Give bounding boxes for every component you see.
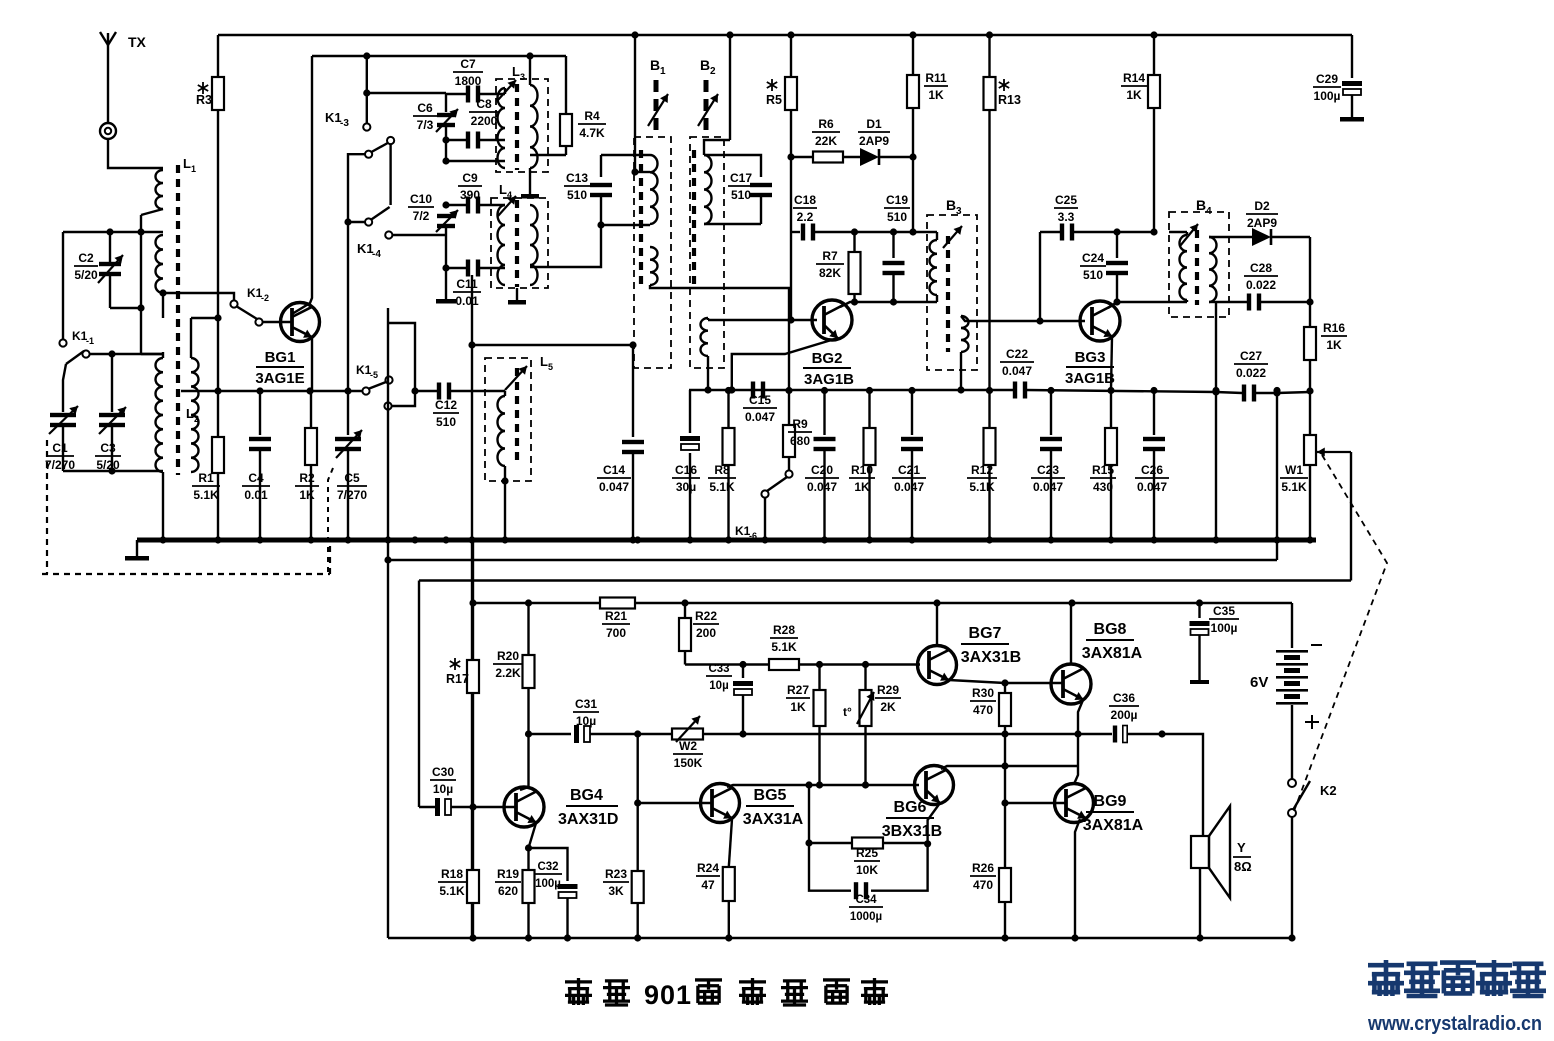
svg-text:R21: R21	[605, 609, 627, 623]
label R30	[970, 686, 996, 717]
svg-text:200µ: 200µ	[1111, 708, 1138, 722]
junction ground bus x=472	[468, 536, 475, 543]
label R21	[602, 609, 630, 640]
junction C36 out	[1158, 730, 1165, 737]
resistor R8	[723, 390, 735, 540]
svg-text:510: 510	[731, 188, 751, 202]
svg-text:5.1K: 5.1K	[439, 884, 465, 898]
label K1-3	[325, 110, 349, 129]
ground symbol main	[125, 540, 149, 561]
BG6 collector	[941, 766, 1078, 769]
svg-text:C19: C19	[886, 193, 908, 207]
svg-text:C15: C15	[749, 393, 771, 407]
switch K1-2	[230, 300, 262, 325]
resistor R14	[1148, 35, 1160, 232]
svg-text:R19: R19	[497, 867, 519, 881]
svg-text:0.047: 0.047	[1033, 480, 1063, 494]
svg-text:C22: C22	[1006, 347, 1028, 361]
BG8 emitter	[1078, 700, 1083, 766]
wire rail to B1 primary tap	[631, 35, 650, 176]
svg-text:0.01: 0.01	[244, 488, 268, 502]
svg-text:470: 470	[973, 878, 993, 892]
junction audio rail x=685	[681, 599, 688, 606]
label BG9	[1083, 793, 1144, 834]
junction R29 bottom	[862, 781, 869, 788]
svg-text:1K: 1K	[928, 88, 944, 102]
svg-text:BG4: BG4	[570, 787, 603, 804]
resistor R19	[523, 870, 535, 938]
label L1	[183, 156, 196, 174]
tuning gang dashed link	[42, 440, 330, 574]
svg-text:C6: C6	[417, 101, 433, 115]
B2 secondary	[701, 318, 709, 356]
junction rail2 K1-3	[363, 52, 370, 59]
BG5 collector	[727, 785, 820, 787]
capacitor C16	[680, 390, 700, 540]
wire to speaker	[1162, 734, 1203, 836]
speaker Y	[1191, 806, 1230, 898]
label R27	[786, 683, 810, 714]
svg-text:C5: C5	[344, 471, 360, 485]
junction on top rail x=791	[787, 31, 794, 38]
coil L3 right	[530, 85, 538, 168]
resistor R28	[769, 659, 799, 670]
wire audio input drop	[418, 581, 420, 808]
svg-text:C31: C31	[575, 697, 597, 711]
wire rail to B2 primary	[704, 35, 730, 155]
capacitor C27	[1212, 385, 1277, 402]
junction ground bus x=311	[307, 536, 314, 543]
svg-text:D2: D2	[1254, 199, 1270, 213]
B4 core	[1195, 230, 1199, 305]
label BG7	[961, 625, 1021, 666]
resistor R27	[814, 665, 826, 786]
junction R27 bottom	[816, 781, 823, 788]
junction D2 col	[1306, 298, 1313, 305]
label R20	[493, 649, 523, 680]
potentiometer W2	[672, 716, 703, 742]
svg-text:0.022: 0.022	[1246, 278, 1276, 292]
svg-text:10µ: 10µ	[709, 680, 728, 692]
svg-text:10µ: 10µ	[576, 714, 596, 728]
junction BG4 emitter	[525, 844, 532, 851]
label C9	[458, 171, 482, 202]
junction W2/C33	[739, 730, 746, 737]
wire L1 tap to K1-2	[163, 293, 234, 300]
svg-text:3AG1B: 3AG1B	[1065, 370, 1115, 387]
svg-text:L: L	[512, 64, 520, 79]
label R12	[967, 463, 997, 494]
label B1	[650, 57, 666, 77]
junction AGC x=989.5	[986, 387, 993, 394]
wire K1-3 top to C6/C7 node	[367, 92, 446, 94]
wire speaker to rail	[1196, 868, 1203, 942]
BG4 emitter	[529, 823, 537, 870]
battery 6V	[1276, 650, 1308, 705]
label C2	[74, 251, 98, 282]
coil L5 box	[485, 358, 531, 481]
BG7 collector	[936, 603, 938, 645]
BG7 emitter	[949, 680, 1005, 683]
svg-text:R1: R1	[198, 471, 214, 485]
wire R14 to C25 node	[1117, 228, 1158, 235]
svg-text:2K: 2K	[880, 700, 896, 714]
svg-text:R10: R10	[851, 463, 873, 477]
junction C31/R23	[634, 730, 641, 737]
svg-text:3AX31A: 3AX31A	[743, 811, 804, 828]
variable capacitor C3	[99, 407, 126, 471]
junction C27 right	[1273, 389, 1280, 396]
wire audio supply rail	[473, 602, 1292, 604]
label BG6	[882, 799, 942, 840]
B3 trimmer arrow	[943, 226, 962, 248]
svg-text:5.1K: 5.1K	[969, 480, 995, 494]
junction emitter line x=348	[344, 387, 351, 394]
svg-text:C30: C30	[432, 765, 454, 779]
junction C27/W1 wire	[1277, 392, 1310, 393]
resistor R4	[530, 56, 572, 155]
capacitor C36	[1113, 726, 1127, 743]
BG9 collector	[1074, 766, 1078, 784]
svg-text:R16: R16	[1323, 321, 1345, 335]
capacitor C6 (padder)	[436, 93, 458, 161]
svg-text:R7: R7	[822, 249, 838, 263]
transistor BG5	[701, 784, 740, 823]
svg-text:1K: 1K	[790, 700, 806, 714]
wire C25 left col	[1036, 232, 1043, 325]
junction ground bus x=1310	[1306, 536, 1313, 543]
svg-text:3AG1E: 3AG1E	[255, 370, 304, 387]
svg-text:R14: R14	[1123, 71, 1145, 85]
resistor R10	[864, 390, 876, 540]
transistor BG1	[281, 303, 320, 342]
junction ground bus x=869.5	[866, 536, 873, 543]
junction ground bus x=690	[686, 536, 693, 543]
junction AGC x=789	[785, 387, 792, 394]
label R28	[770, 623, 798, 654]
resistor R24	[723, 867, 735, 938]
svg-text:0.022: 0.022	[1236, 366, 1266, 380]
svg-text:C34: C34	[855, 894, 877, 906]
L5 trimmer arrow	[505, 366, 527, 390]
svg-text:3BX31B: 3BX31B	[882, 823, 942, 840]
svg-text:0.01: 0.01	[455, 294, 479, 308]
coil L4 box	[491, 198, 548, 288]
label C19	[884, 193, 910, 224]
svg-text:BG5: BG5	[754, 787, 787, 804]
wire to BG8 base	[1005, 682, 1063, 684]
label R9	[788, 417, 812, 448]
junction R27 top	[816, 661, 823, 668]
label BG1	[255, 349, 304, 387]
wire BG2 collector to B3 primary	[855, 301, 938, 303]
wire K1-4 throw to C10 node	[392, 234, 446, 236]
label BG8	[1082, 621, 1143, 662]
dashed link C5	[328, 468, 333, 574]
svg-text:100µ: 100µ	[1211, 621, 1238, 635]
svg-text:2200: 2200	[471, 114, 498, 128]
IF transformer B1 box	[634, 137, 671, 368]
B1 secondary out	[650, 285, 789, 390]
junction ground bus x=348	[344, 536, 351, 543]
wire R3 col to emitter line	[217, 318, 219, 391]
label C34	[849, 894, 883, 923]
resistor R16	[1304, 327, 1316, 391]
junction ground bus x=446	[442, 536, 449, 543]
label C25	[1054, 193, 1078, 224]
W1 wiper	[1317, 448, 1351, 581]
L4 trimmer arrow	[498, 196, 516, 216]
svg-text:4.7K: 4.7K	[579, 126, 605, 140]
junction audio rail x=1199.5	[1196, 599, 1203, 606]
variable capacitor C5	[335, 391, 362, 540]
capacitor C2 (trimmer)	[98, 232, 145, 312]
svg-text:C12: C12	[435, 398, 457, 412]
svg-text:BG7: BG7	[969, 625, 1002, 642]
svg-text:t°: t°	[843, 705, 852, 719]
svg-text:BG9: BG9	[1094, 793, 1127, 810]
resistor R1	[212, 391, 224, 540]
svg-text:5.1K: 5.1K	[709, 480, 735, 494]
audio bottom rail	[388, 937, 1292, 940]
svg-text:C1: C1	[52, 441, 68, 455]
svg-text:R28: R28	[773, 623, 795, 637]
capacitor C7	[446, 86, 505, 103]
svg-text:200: 200	[696, 626, 716, 640]
BG5 emitter	[729, 819, 732, 867]
junction on top rail x=913	[909, 31, 916, 38]
svg-text:30µ: 30µ	[676, 480, 696, 494]
label K2	[1320, 783, 1337, 798]
svg-text:22K: 22K	[815, 134, 837, 148]
svg-text:3K: 3K	[608, 884, 624, 898]
junction AGC x=1216	[1212, 387, 1219, 394]
capacitor C24	[1106, 228, 1128, 305]
label R3	[196, 82, 212, 107]
svg-text:510: 510	[567, 188, 587, 202]
svg-text:C24: C24	[1082, 251, 1104, 265]
svg-text:C2: C2	[78, 251, 94, 265]
svg-text:1K: 1K	[299, 488, 315, 502]
svg-text:C28: C28	[1250, 261, 1272, 275]
wire rail to battery	[1291, 603, 1293, 648]
B1 primary	[650, 155, 658, 224]
svg-text:10K: 10K	[856, 863, 878, 877]
label R10	[849, 463, 875, 494]
wire oscillator ground column	[471, 275, 473, 938]
label C13	[564, 171, 590, 202]
capacitor C19	[883, 228, 905, 305]
junction BG6 collector line	[1001, 762, 1008, 769]
label R4	[578, 109, 606, 140]
resistor R25	[809, 838, 928, 849]
resistor R5	[785, 35, 797, 157]
wire B3 sec top to BG3 base	[961, 316, 1085, 321]
svg-text:0.047: 0.047	[745, 410, 775, 424]
svg-text:C11: C11	[456, 277, 478, 291]
inductor L1 winding A	[141, 170, 163, 215]
junction on top rail x=1154	[1150, 31, 1157, 38]
junction ground bus x=1216	[1212, 536, 1219, 543]
capacitor C25	[1040, 224, 1117, 241]
svg-text:BG3: BG3	[1075, 349, 1106, 366]
svg-text:1000µ: 1000µ	[850, 911, 882, 923]
svg-text:2: 2	[710, 66, 716, 77]
transistor BG3	[1080, 301, 1120, 341]
wire volume to audio input	[419, 579, 1351, 581]
svg-text:5.1K: 5.1K	[771, 640, 797, 654]
label C14	[597, 463, 631, 494]
junction C3 bottom	[108, 467, 115, 474]
label C32	[534, 861, 562, 890]
svg-text:R12: R12	[971, 463, 993, 477]
transistor BG2	[812, 300, 852, 340]
wire top supply rail	[218, 34, 1352, 36]
label C33	[706, 663, 732, 692]
wire R28 to BG7 base	[799, 663, 920, 665]
label K1-5	[356, 363, 378, 380]
junction ground bus x=388	[384, 536, 391, 543]
label C23	[1031, 463, 1065, 494]
label K1-6	[735, 524, 757, 541]
junction ground bus x=633	[629, 536, 636, 543]
capacitor C17	[704, 155, 772, 224]
resistor R13	[984, 35, 996, 390]
label C15	[743, 393, 777, 424]
junction K1-3 vertical	[363, 89, 370, 96]
junction ground bus x=1051	[1047, 536, 1054, 543]
svg-text:510: 510	[436, 415, 456, 429]
svg-text:C13: C13	[566, 171, 588, 185]
svg-text:R25: R25	[856, 846, 878, 860]
wire C18 node to B3	[855, 228, 938, 235]
junction AGC x=728.5	[725, 387, 732, 394]
wire C1/C3 bottoms to L2 bottom	[63, 470, 163, 472]
resistor R9	[783, 390, 795, 470]
resistor R2	[305, 391, 317, 540]
wire R22 to R28	[685, 650, 769, 665]
label R5	[766, 79, 782, 107]
label R24	[696, 861, 720, 892]
svg-text:R3: R3	[196, 93, 212, 107]
svg-text:BG2: BG2	[812, 350, 843, 367]
wire L5 bottom	[501, 466, 508, 540]
junction C6 bottom	[442, 157, 449, 164]
svg-text:470: 470	[973, 703, 993, 717]
svg-text:1K: 1K	[1126, 88, 1142, 102]
resistor R21	[600, 598, 635, 609]
svg-text:R5: R5	[766, 93, 782, 107]
wire L3 right top to rail2	[526, 52, 533, 85]
wire AGC line	[689, 390, 1216, 392]
svg-text:L: L	[186, 406, 194, 421]
capacitor C31	[529, 725, 638, 743]
svg-text:R27: R27	[787, 683, 809, 697]
svg-text:3: 3	[520, 72, 525, 82]
svg-text:B: B	[946, 197, 956, 213]
svg-text:R11: R11	[925, 71, 947, 85]
svg-text:B: B	[1196, 197, 1206, 213]
resistor R15	[1105, 390, 1117, 540]
wire K1-1 to C3	[89, 350, 163, 412]
switch K1-4	[365, 207, 392, 239]
label C16	[672, 463, 700, 494]
label BG4	[558, 787, 618, 828]
battery plus	[1305, 715, 1319, 729]
svg-text:3: 3	[956, 206, 962, 217]
svg-text:C8: C8	[476, 97, 492, 111]
svg-text:L: L	[540, 354, 548, 369]
label D2	[1246, 199, 1278, 230]
svg-text:-1: -1	[86, 336, 94, 346]
wire B4 sec bottom node	[1209, 302, 1216, 540]
label C20	[805, 463, 839, 494]
svg-text:2: 2	[194, 414, 199, 424]
junction BG7 emitter node	[1001, 679, 1008, 686]
transistor BG9	[1055, 784, 1094, 823]
svg-text:R18: R18	[441, 867, 463, 881]
label C11	[453, 277, 481, 308]
junction D1 out	[909, 153, 916, 160]
coil L3 left	[498, 88, 505, 168]
svg-text:C27: C27	[1240, 349, 1262, 363]
svg-text:C25: C25	[1055, 193, 1077, 207]
svg-text:510: 510	[887, 210, 907, 224]
label W2	[673, 739, 703, 770]
B1 core	[639, 150, 643, 290]
coil L3 box	[496, 79, 548, 172]
resistor R29 (thermistor)	[857, 665, 874, 786]
svg-text:7/3: 7/3	[417, 118, 434, 132]
label BG3	[1065, 349, 1115, 387]
capacitor C22	[1013, 382, 1027, 399]
IF transformer B2 box	[690, 137, 724, 368]
transistor BG4	[504, 787, 544, 827]
ground L4	[508, 288, 526, 305]
label C21	[892, 463, 926, 494]
wire B2 secondary bottom	[704, 356, 711, 394]
BG2 emitter	[732, 338, 838, 390]
wire battery to K2	[1291, 705, 1293, 779]
B1 secondary	[650, 247, 658, 285]
B2 trimmer	[698, 80, 718, 131]
IF transformer B4 box	[1169, 212, 1229, 317]
svg-text:R22: R22	[695, 609, 717, 623]
label R16	[1321, 321, 1347, 352]
capacitor C4	[249, 391, 271, 540]
junction audio rail x=937	[933, 599, 940, 606]
resistor R20	[523, 603, 535, 787]
title text 寰球901型电原理图	[565, 978, 888, 1010]
label 6V	[1250, 674, 1268, 691]
label C17	[728, 171, 754, 202]
label TX	[128, 34, 147, 50]
svg-text:Y: Y	[1237, 840, 1246, 855]
transistor BG7	[918, 646, 957, 685]
B2 primary	[704, 155, 712, 224]
label C5	[337, 471, 367, 502]
label C27	[1234, 349, 1268, 380]
svg-text:510: 510	[1083, 268, 1103, 282]
label C12	[433, 398, 459, 429]
label R15	[1090, 463, 1116, 494]
BG6 emitter	[928, 803, 940, 844]
label R23	[603, 867, 629, 898]
svg-text:C3: C3	[100, 441, 116, 455]
B3 primary	[930, 232, 937, 302]
label C29	[1313, 72, 1341, 103]
svg-text:3AG1B: 3AG1B	[804, 371, 854, 388]
